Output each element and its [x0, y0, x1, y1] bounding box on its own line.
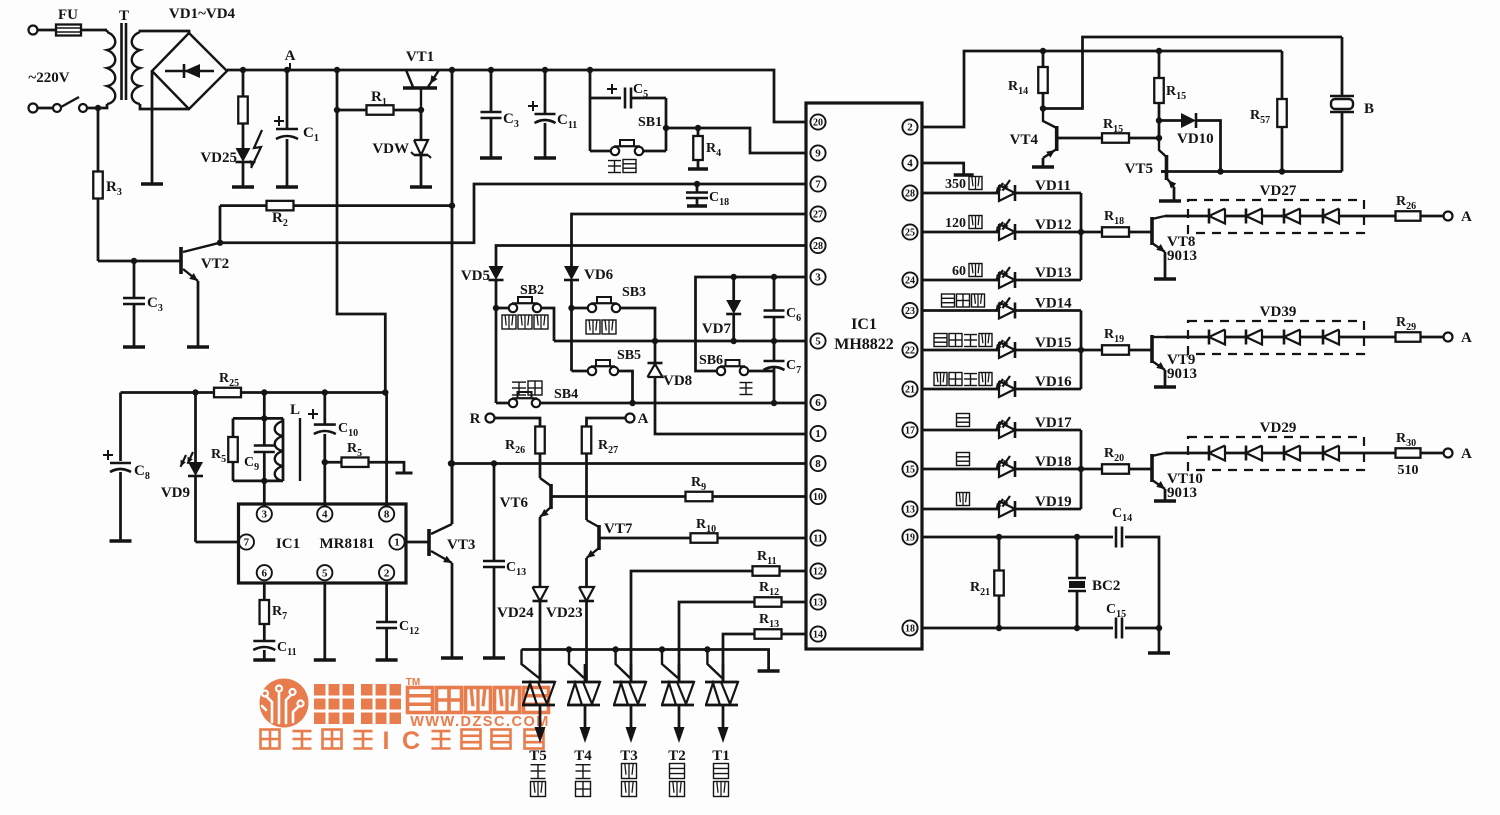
svg-text:10: 10 — [813, 492, 823, 503]
svg-text:25: 25 — [905, 228, 915, 239]
svg-text:6: 6 — [815, 397, 821, 409]
svg-text:T1: T1 — [712, 748, 730, 764]
svg-text:11: 11 — [813, 534, 822, 545]
svg-text:13: 13 — [905, 505, 915, 516]
svg-text:A: A — [1461, 446, 1472, 462]
svg-text:FU: FU — [58, 7, 78, 23]
svg-text:7: 7 — [815, 179, 821, 191]
svg-text:MR8181: MR8181 — [320, 536, 375, 552]
svg-text:T4: T4 — [574, 748, 592, 764]
svg-text:3: 3 — [815, 272, 821, 284]
svg-text:8: 8 — [815, 458, 821, 470]
svg-text:VT1: VT1 — [406, 49, 434, 65]
svg-text:13: 13 — [813, 598, 823, 609]
svg-text:9: 9 — [815, 148, 821, 160]
svg-text:VD11: VD11 — [1035, 178, 1071, 194]
svg-text:1: 1 — [394, 537, 400, 549]
svg-text:VD17: VD17 — [1035, 415, 1072, 431]
svg-text:350: 350 — [945, 177, 966, 192]
svg-text:VD8: VD8 — [663, 373, 692, 389]
svg-text:23: 23 — [905, 306, 915, 317]
svg-text:21: 21 — [905, 385, 915, 396]
svg-text:VD25: VD25 — [200, 150, 237, 166]
svg-text:BC2: BC2 — [1092, 578, 1120, 594]
svg-text:VD39: VD39 — [1260, 304, 1297, 320]
svg-text:SB2: SB2 — [520, 283, 544, 298]
svg-text:A: A — [638, 411, 649, 427]
svg-text:17: 17 — [905, 426, 915, 437]
svg-text:VT2: VT2 — [201, 256, 229, 272]
svg-text:SB3: SB3 — [622, 285, 646, 300]
svg-text:15: 15 — [905, 465, 915, 476]
svg-text:1: 1 — [815, 428, 821, 440]
svg-text:A: A — [1461, 209, 1472, 225]
svg-text:VT5: VT5 — [1125, 161, 1153, 177]
svg-text:27: 27 — [813, 210, 823, 221]
svg-text:SB1: SB1 — [638, 115, 662, 130]
svg-text:4: 4 — [907, 158, 913, 170]
svg-text:WWW.DZSC.COM: WWW.DZSC.COM — [410, 714, 550, 730]
svg-text:8: 8 — [384, 509, 390, 521]
svg-text:VD27: VD27 — [1260, 183, 1297, 199]
svg-text:B: B — [1364, 101, 1374, 117]
svg-text:60: 60 — [952, 264, 966, 279]
svg-text:24: 24 — [905, 276, 915, 287]
svg-text:L: L — [290, 402, 300, 418]
svg-text:VD13: VD13 — [1035, 265, 1072, 281]
svg-text:120: 120 — [945, 216, 966, 231]
svg-text:20: 20 — [813, 118, 823, 129]
svg-text:VT7: VT7 — [604, 521, 633, 537]
svg-text:T: T — [119, 8, 129, 24]
svg-text:VD29: VD29 — [1260, 420, 1297, 436]
svg-text:6: 6 — [262, 567, 268, 579]
svg-text:VD15: VD15 — [1035, 335, 1072, 351]
svg-text:SB5: SB5 — [617, 348, 641, 363]
svg-text:VD7: VD7 — [702, 321, 732, 337]
svg-text:VT4: VT4 — [1010, 132, 1039, 148]
svg-text:VT6: VT6 — [500, 495, 529, 511]
svg-text:4: 4 — [322, 509, 328, 521]
svg-text:MH8822: MH8822 — [834, 336, 894, 353]
svg-text:VD5: VD5 — [461, 268, 490, 284]
svg-text:22: 22 — [905, 346, 915, 357]
svg-text:T5: T5 — [529, 748, 547, 764]
svg-text:SB4: SB4 — [554, 387, 578, 402]
svg-text:IC1: IC1 — [276, 536, 300, 552]
svg-text:VD14: VD14 — [1035, 296, 1072, 312]
svg-text:VDW: VDW — [372, 141, 409, 157]
svg-text:5: 5 — [815, 336, 821, 348]
svg-text:C: C — [402, 727, 420, 755]
svg-text:~220V: ~220V — [28, 70, 69, 86]
svg-text:3: 3 — [262, 509, 268, 521]
svg-text:9013: 9013 — [1167, 248, 1197, 264]
svg-text:A: A — [1461, 330, 1472, 346]
svg-text:I: I — [383, 727, 390, 755]
svg-text:7: 7 — [244, 537, 250, 549]
svg-text:9013: 9013 — [1167, 485, 1197, 501]
svg-text:R: R — [470, 411, 481, 427]
svg-text:2: 2 — [384, 567, 390, 579]
svg-text:VD6: VD6 — [584, 267, 614, 283]
svg-text:VD18: VD18 — [1035, 454, 1072, 470]
svg-text:T3: T3 — [620, 748, 638, 764]
svg-text:VD10: VD10 — [1177, 131, 1214, 147]
svg-text:VD9: VD9 — [161, 485, 190, 501]
svg-text:2: 2 — [907, 122, 913, 134]
svg-text:VD24: VD24 — [497, 605, 534, 621]
svg-text:VD12: VD12 — [1035, 217, 1072, 233]
svg-text:VT3: VT3 — [447, 537, 475, 553]
svg-text:510: 510 — [1398, 463, 1419, 478]
svg-text:28: 28 — [905, 189, 915, 200]
svg-text:18: 18 — [905, 624, 915, 635]
svg-text:A: A — [285, 48, 296, 64]
svg-text:SB6: SB6 — [699, 353, 723, 368]
svg-text:T2: T2 — [668, 748, 686, 764]
svg-text:28: 28 — [813, 241, 823, 252]
svg-text:VD23: VD23 — [546, 605, 583, 621]
svg-text:14: 14 — [813, 630, 823, 641]
svg-text:VD1~VD4: VD1~VD4 — [169, 6, 236, 22]
svg-text:12: 12 — [813, 567, 823, 578]
svg-text:19: 19 — [905, 533, 915, 544]
svg-text:VD19: VD19 — [1035, 494, 1072, 510]
svg-text:IC1: IC1 — [851, 316, 877, 333]
svg-text:9013: 9013 — [1167, 366, 1197, 382]
svg-text:VD16: VD16 — [1035, 374, 1072, 390]
svg-text:5: 5 — [322, 567, 328, 579]
